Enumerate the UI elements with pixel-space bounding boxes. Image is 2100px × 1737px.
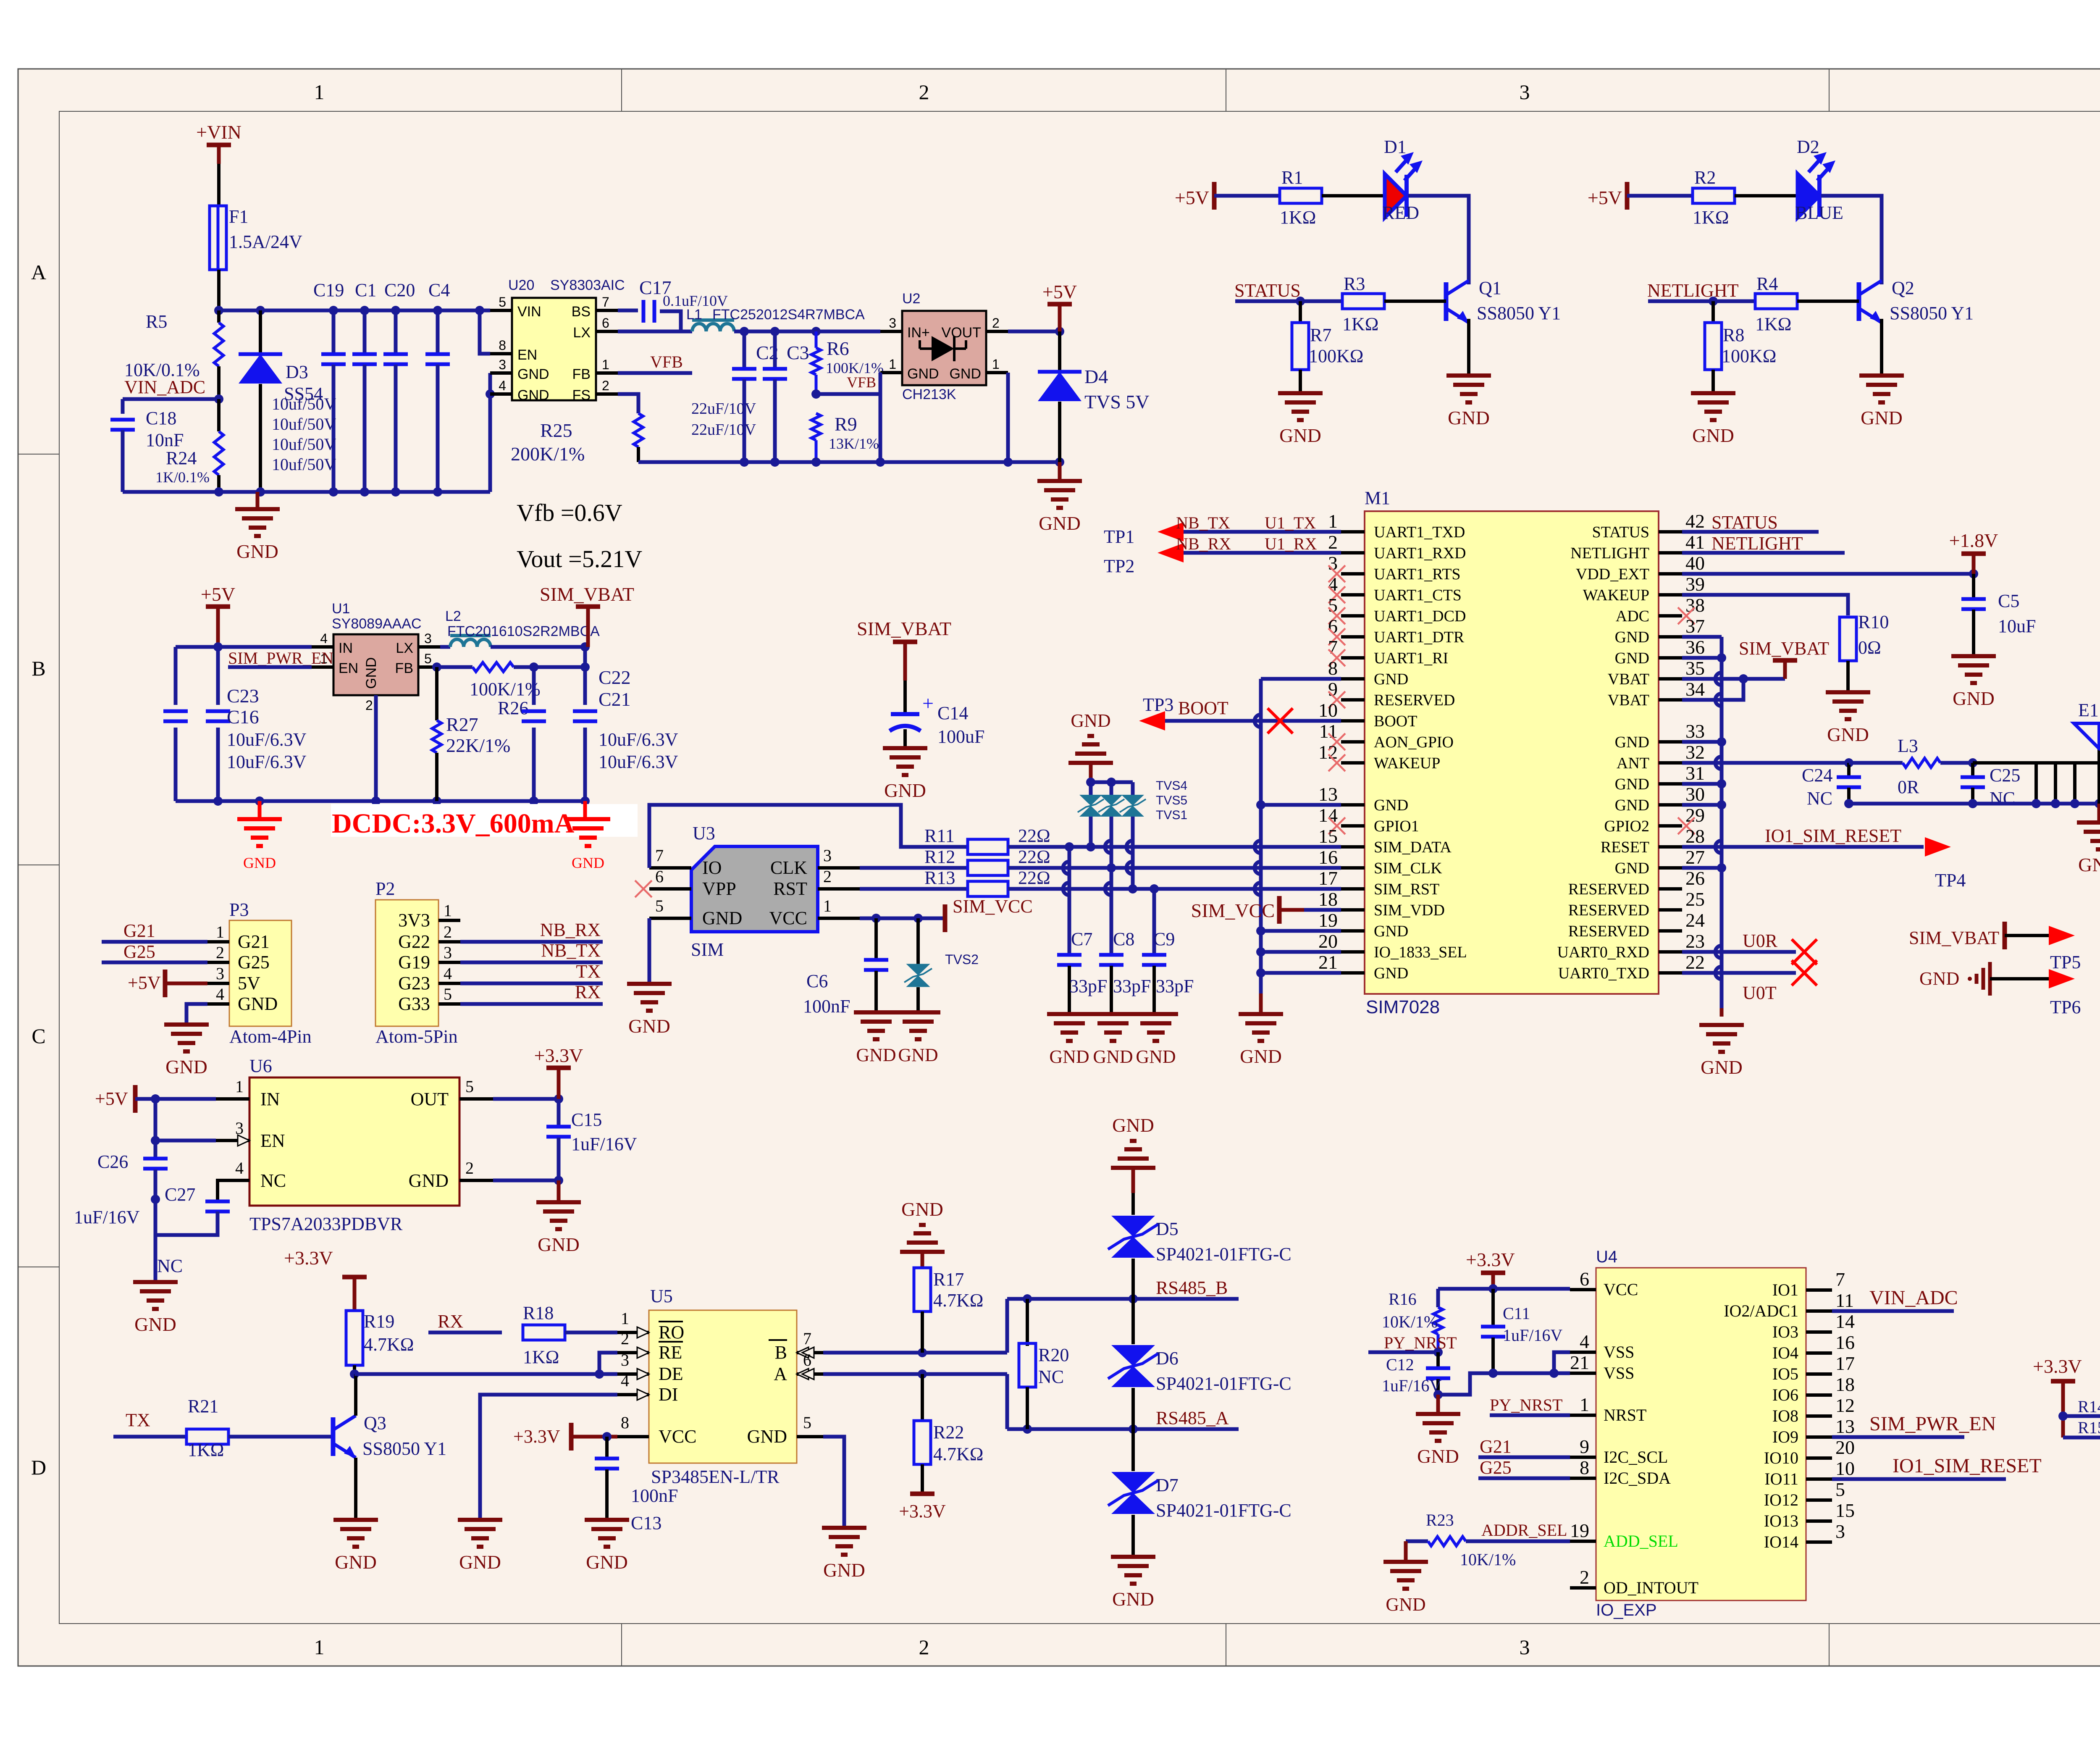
svg-text:C16: C16 bbox=[227, 706, 259, 728]
svg-text:6: 6 bbox=[1580, 1268, 1589, 1290]
svg-text:G21: G21 bbox=[238, 931, 270, 952]
svg-text:EN: EN bbox=[260, 1130, 285, 1151]
svg-text:1KΩ: 1KΩ bbox=[1280, 207, 1316, 228]
svg-text:U1: U1 bbox=[332, 601, 350, 617]
wire hops SIM cap columns bbox=[1063, 862, 1069, 874]
svg-text:10uF/6.3V: 10uF/6.3V bbox=[598, 729, 678, 750]
resistor R10 bbox=[1840, 617, 1856, 661]
svg-text:R19: R19 bbox=[364, 1311, 394, 1332]
wire M1 right GND bus bbox=[1682, 635, 1722, 639]
svg-text:GND: GND bbox=[1112, 1114, 1154, 1136]
M1 pin 9 RESERVED bbox=[1341, 698, 1365, 702]
svg-text:NETLIGHT: NETLIGHT bbox=[1711, 533, 1803, 554]
wire hops M1 right gnd bus bbox=[1715, 673, 1722, 685]
wire FB node bbox=[440, 665, 472, 669]
TVS5 diode bbox=[1110, 782, 1113, 795]
svg-text:UART1_RXD: UART1_RXD bbox=[1374, 544, 1466, 562]
svg-text:VBAT: VBAT bbox=[1608, 691, 1649, 709]
svg-text:14: 14 bbox=[1835, 1311, 1855, 1332]
svg-text:SP4021-01FTG-C: SP4021-01FTG-C bbox=[1156, 1244, 1291, 1264]
wire RS485_A row bbox=[1007, 1427, 1239, 1431]
svg-text:U1_RX: U1_RX bbox=[1265, 534, 1317, 553]
svg-text:10uf/50V: 10uf/50V bbox=[272, 435, 336, 454]
svg-text:IO13: IO13 bbox=[1764, 1511, 1798, 1530]
M1 pin 32 ANT bbox=[1659, 761, 1682, 765]
svg-text:LX: LX bbox=[396, 640, 413, 656]
svg-text:GND: GND bbox=[884, 780, 926, 801]
svg-text:R9: R9 bbox=[835, 413, 857, 435]
M1 pin 12 WAKEUP bbox=[1341, 761, 1365, 765]
svg-text:SIM_VDD: SIM_VDD bbox=[1374, 901, 1445, 919]
inductor L2 bbox=[440, 645, 450, 649]
M1 pin 26 RESERVED bbox=[1659, 887, 1682, 891]
svg-text:2: 2 bbox=[919, 1635, 929, 1659]
svg-text:GPIO2: GPIO2 bbox=[1604, 817, 1649, 835]
svg-text:2: 2 bbox=[1580, 1566, 1589, 1588]
svg-text:17: 17 bbox=[1318, 867, 1338, 889]
wire VCC node U4 bbox=[1438, 1287, 1570, 1291]
IC U5 SP3485EN-L/TR bbox=[649, 1310, 797, 1463]
svg-text:100K/1%: 100K/1% bbox=[470, 679, 541, 699]
wire VBAT pins 35/34 bbox=[1682, 677, 1785, 681]
svg-text:VDD_EXT: VDD_EXT bbox=[1576, 565, 1649, 583]
svg-text:C21: C21 bbox=[598, 688, 631, 710]
svg-text:SIM_DATA: SIM_DATA bbox=[1374, 838, 1452, 856]
svg-text:1: 1 bbox=[314, 1635, 325, 1659]
svg-text:B: B bbox=[31, 657, 45, 680]
U4 pin 2 OD_INTOUT bbox=[1570, 1586, 1596, 1590]
transistor Q3 bbox=[331, 1417, 336, 1456]
M1 pin 13 GND bbox=[1341, 803, 1365, 807]
svg-text:7: 7 bbox=[655, 846, 664, 865]
ground symbol C14 bbox=[883, 746, 927, 750]
U4 pin 18 IO6 bbox=[1806, 1393, 1832, 1397]
svg-text:G33: G33 bbox=[398, 993, 430, 1014]
svg-text:G25: G25 bbox=[238, 952, 270, 972]
wire U2 GND right to bus bbox=[1006, 373, 1010, 462]
U4 pin 9 I2C_SCL bbox=[1570, 1456, 1596, 1459]
connector P3 Atom-4Pin bbox=[229, 920, 291, 1026]
M1 pin 29 GPIO2 bbox=[1659, 824, 1682, 828]
svg-text:RESERVED: RESERVED bbox=[1374, 691, 1455, 709]
resistor R3 bbox=[1342, 294, 1384, 309]
ground symbol C5 bbox=[1951, 654, 1996, 658]
svg-text:30: 30 bbox=[1685, 783, 1705, 805]
svg-text:ADDR_SEL: ADDR_SEL bbox=[1481, 1521, 1567, 1540]
M1 pin 19 GND bbox=[1341, 929, 1365, 933]
wire U3 IO to SIM_DATA row bbox=[649, 805, 968, 868]
svg-text:5: 5 bbox=[499, 294, 506, 310]
svg-text:C6: C6 bbox=[806, 971, 828, 991]
svg-text:U2: U2 bbox=[902, 291, 920, 307]
svg-text:GND: GND bbox=[238, 993, 278, 1014]
svg-text:GND: GND bbox=[586, 1551, 628, 1573]
svg-text:IO6: IO6 bbox=[1772, 1385, 1798, 1404]
svg-text:R20: R20 bbox=[1038, 1345, 1069, 1365]
svg-text:SIM: SIM bbox=[691, 939, 724, 960]
svg-text:17: 17 bbox=[1835, 1353, 1855, 1374]
ground symbol output section bbox=[1058, 462, 1062, 481]
capacitor C18 bbox=[121, 399, 125, 414]
svg-text:4.7KΩ: 4.7KΩ bbox=[933, 1290, 983, 1311]
inductor L3 0R bbox=[1849, 761, 1903, 765]
M1 pin 3 UART1_RTS bbox=[1341, 572, 1365, 575]
capacitor C8 bbox=[1110, 868, 1113, 954]
IC U2 CH213K bbox=[902, 311, 986, 385]
svg-text:3: 3 bbox=[235, 1119, 244, 1138]
svg-text:GND: GND bbox=[1615, 775, 1649, 793]
ground symbol C9 bbox=[1134, 1012, 1178, 1016]
resistor R7 bbox=[1299, 301, 1302, 323]
svg-text:5: 5 bbox=[465, 1077, 474, 1096]
wire Q3 emitter to ground bbox=[354, 1458, 357, 1520]
wire F1 to VIN bus bbox=[217, 270, 220, 310]
svg-text:10K/1%: 10K/1% bbox=[1460, 1550, 1516, 1569]
svg-text:IO3: IO3 bbox=[1772, 1322, 1798, 1341]
M1 pin 16 SIM_CLK bbox=[1341, 866, 1365, 870]
M1 pin 37 GND bbox=[1659, 635, 1682, 639]
svg-text:U3: U3 bbox=[693, 823, 715, 844]
svg-text:4: 4 bbox=[621, 1371, 629, 1390]
TVS2 diode bbox=[916, 918, 920, 964]
svg-text:13: 13 bbox=[1318, 783, 1338, 805]
svg-text:18: 18 bbox=[1318, 888, 1338, 910]
svg-text:+3.3V: +3.3V bbox=[513, 1426, 560, 1447]
svg-text:GND: GND bbox=[1071, 710, 1110, 731]
svg-text:IO1_SIM_RESET: IO1_SIM_RESET bbox=[1893, 1455, 2042, 1477]
svg-text:RO: RO bbox=[659, 1322, 684, 1343]
wire RX to R18 bbox=[428, 1331, 502, 1335]
svg-text:3: 3 bbox=[444, 943, 452, 962]
svg-text:U4: U4 bbox=[1596, 1248, 1617, 1266]
M1 pin 11 AON_GPIO bbox=[1341, 740, 1365, 744]
no-connect X U3 VPP bbox=[635, 880, 652, 897]
M1 pin 21 GND bbox=[1341, 971, 1365, 975]
svg-text:NB_TX: NB_TX bbox=[1176, 513, 1230, 532]
wire Q3 collector bbox=[354, 1374, 357, 1416]
svg-text:GND: GND bbox=[1240, 1046, 1282, 1067]
capacitor C3 bbox=[773, 331, 777, 368]
svg-text:2: 2 bbox=[992, 315, 1000, 331]
svg-text:40: 40 bbox=[1685, 552, 1705, 574]
IC U1 SY8089AAAC bbox=[333, 634, 418, 695]
svg-text:G22: G22 bbox=[398, 931, 430, 952]
svg-text:+3.3V: +3.3V bbox=[284, 1247, 333, 1269]
svg-text:2: 2 bbox=[919, 80, 929, 104]
svg-text:23: 23 bbox=[1685, 930, 1705, 952]
wire U3 CLK to R12 bbox=[860, 866, 968, 870]
svg-text:NB_TX: NB_TX bbox=[541, 940, 601, 961]
resistor R13 bbox=[968, 881, 1008, 896]
resistor R27 bbox=[435, 667, 438, 720]
svg-text:BOOT: BOOT bbox=[1178, 698, 1228, 718]
wire R10 to ground bbox=[1846, 661, 1850, 692]
svg-text:26: 26 bbox=[1685, 867, 1705, 889]
svg-text:10uf/50V: 10uf/50V bbox=[272, 455, 336, 474]
M1 pin 23 UART0_RXD bbox=[1659, 950, 1682, 954]
svg-text:U5: U5 bbox=[650, 1286, 673, 1306]
svg-text:C8: C8 bbox=[1113, 929, 1134, 949]
svg-text:G21: G21 bbox=[1480, 1436, 1512, 1457]
resistor R8 bbox=[1711, 301, 1715, 323]
capacitor C20 bbox=[394, 310, 398, 354]
resistor R6 bbox=[815, 331, 818, 348]
svg-text:RESERVED: RESERVED bbox=[1568, 922, 1649, 940]
svg-text:1: 1 bbox=[602, 357, 609, 372]
wire DE/RE control bbox=[354, 1372, 599, 1376]
M1 pin 33 GND bbox=[1659, 740, 1682, 744]
svg-text:RESET: RESET bbox=[1601, 838, 1649, 856]
wire U3 RST to R13 bbox=[860, 887, 968, 891]
svg-text:1KΩ: 1KΩ bbox=[1693, 207, 1729, 228]
svg-text:GND: GND bbox=[1093, 1046, 1133, 1067]
wire P2 pin5 RX bbox=[460, 1002, 603, 1006]
ground symbol C13 bbox=[585, 1518, 629, 1522]
capacitor C17 bbox=[618, 309, 638, 313]
svg-text:IO8: IO8 bbox=[1772, 1406, 1798, 1425]
svg-text:100KΩ: 100KΩ bbox=[1722, 346, 1776, 366]
svg-text:FS: FS bbox=[572, 387, 591, 403]
resistor R22 bbox=[921, 1374, 924, 1421]
diode D4 TVS bbox=[1058, 331, 1061, 371]
inductor L1 bbox=[618, 330, 692, 334]
capacitor C12 bbox=[1436, 1352, 1440, 1367]
capacitor C4 bbox=[436, 310, 440, 354]
svg-text:10uF/6.3V: 10uF/6.3V bbox=[227, 729, 307, 750]
svg-text:13: 13 bbox=[1835, 1416, 1855, 1437]
wire hops M1 left gnd bus bbox=[1255, 715, 1261, 727]
M1 pin 15 SIM_DATA bbox=[1341, 845, 1365, 849]
wire P2 pin3 NB_TX bbox=[460, 961, 603, 964]
svg-text:G25: G25 bbox=[1480, 1457, 1512, 1478]
resistor R5 bbox=[217, 310, 220, 323]
svg-text:1: 1 bbox=[235, 1077, 244, 1096]
svg-text:Q1: Q1 bbox=[1479, 278, 1501, 298]
ground symbol C8 bbox=[1091, 1012, 1135, 1016]
svg-text:NC: NC bbox=[1038, 1366, 1064, 1387]
svg-text:VSS: VSS bbox=[1604, 1343, 1634, 1361]
svg-text:DI: DI bbox=[659, 1384, 678, 1405]
svg-text:SY8303AIC: SY8303AIC bbox=[550, 277, 625, 293]
capacitor C6 bbox=[874, 918, 878, 959]
svg-text:IO2/ADC1: IO2/ADC1 bbox=[1724, 1301, 1798, 1320]
svg-text:SIM_PWR_EN: SIM_PWR_EN bbox=[1869, 1413, 1996, 1435]
U4 pin 4 VSS bbox=[1570, 1351, 1596, 1354]
svg-text:C1: C1 bbox=[355, 280, 376, 300]
ground symbol DI bbox=[458, 1518, 502, 1522]
svg-text:22Ω: 22Ω bbox=[1018, 867, 1050, 888]
svg-text:IO_1833_SEL: IO_1833_SEL bbox=[1374, 943, 1467, 961]
M1 pin 36 GND bbox=[1659, 656, 1682, 660]
svg-text:P3: P3 bbox=[229, 899, 249, 920]
svg-text:C13: C13 bbox=[631, 1513, 661, 1533]
svg-text:3: 3 bbox=[216, 964, 224, 983]
svg-text:SIM_RST: SIM_RST bbox=[1374, 880, 1439, 898]
M1 pin 38 ADC bbox=[1659, 614, 1682, 618]
wire TX to R21 bbox=[113, 1435, 186, 1439]
svg-text:+5V: +5V bbox=[1175, 187, 1209, 208]
svg-text:VFB: VFB bbox=[847, 374, 876, 391]
svg-text:3: 3 bbox=[823, 846, 832, 865]
frame zone dividers bottom bbox=[621, 1624, 622, 1666]
wire U5 GND to ground bbox=[823, 1437, 844, 1528]
svg-text:R27: R27 bbox=[446, 714, 478, 735]
U4 pin 5 IO12 bbox=[1806, 1498, 1832, 1502]
svg-text:7: 7 bbox=[602, 294, 609, 310]
resistor R20 NC bbox=[1026, 1299, 1029, 1346]
svg-text:15: 15 bbox=[1318, 825, 1338, 847]
resistor R21 bbox=[186, 1429, 228, 1444]
svg-text:GND: GND bbox=[1919, 968, 1959, 989]
resistor R18 bbox=[523, 1325, 565, 1340]
svg-text:GND: GND bbox=[1039, 512, 1081, 534]
svg-text:VIN_ADC: VIN_ADC bbox=[124, 377, 205, 397]
IC M1 SIM7028 bbox=[1365, 511, 1659, 994]
svg-text:UART0_RXD: UART0_RXD bbox=[1557, 943, 1649, 961]
svg-text:+5V: +5V bbox=[1042, 281, 1077, 302]
resistor R24 bbox=[217, 399, 220, 431]
svg-text:C20: C20 bbox=[384, 280, 415, 300]
wire P2 pin2 NB_RX bbox=[460, 940, 603, 944]
svg-text:25: 25 bbox=[1685, 888, 1705, 910]
wire R4 to base bbox=[1797, 300, 1859, 303]
svg-text:IN: IN bbox=[260, 1089, 280, 1109]
svg-text:GND: GND bbox=[1417, 1445, 1459, 1467]
svg-text:5: 5 bbox=[803, 1413, 811, 1432]
node NETLIGHT at M1 pin41 bbox=[1682, 551, 1845, 555]
svg-text:C19: C19 bbox=[313, 280, 344, 300]
wire U1 IN node bbox=[176, 645, 312, 649]
svg-text:C15: C15 bbox=[571, 1109, 602, 1130]
svg-text:27: 27 bbox=[1685, 846, 1705, 868]
wire U1 GND pin to rail bbox=[374, 695, 378, 801]
fuse F1 bbox=[210, 206, 226, 270]
svg-text:SIM_VBAT: SIM_VBAT bbox=[1739, 638, 1829, 659]
wire VIN bus bbox=[219, 309, 490, 313]
svg-text:RX: RX bbox=[438, 1311, 463, 1332]
diode D3 SS54 bbox=[259, 310, 262, 354]
resistor R16 bbox=[1436, 1289, 1440, 1307]
svg-text:4: 4 bbox=[1580, 1331, 1589, 1352]
svg-text:R4: R4 bbox=[1756, 273, 1778, 294]
svg-text:FTC252012S4R7MBCA: FTC252012S4R7MBCA bbox=[712, 307, 865, 323]
capacitor C22 bbox=[532, 667, 536, 705]
svg-text:10nF: 10nF bbox=[146, 430, 184, 450]
svg-text:R22: R22 bbox=[933, 1422, 964, 1443]
wire NETLIGHT to R4 bbox=[1648, 300, 1755, 303]
svg-text:RESERVED: RESERVED bbox=[1568, 901, 1649, 919]
svg-text:UART1_TXD: UART1_TXD bbox=[1374, 523, 1465, 541]
U4 pin 3 IO14 bbox=[1806, 1540, 1832, 1544]
svg-text:3V3: 3V3 bbox=[398, 910, 430, 930]
wire U5 A to RS485_A bbox=[823, 1372, 1007, 1376]
svg-text:P2: P2 bbox=[375, 878, 395, 899]
ground symbol TVS group bbox=[1068, 761, 1113, 765]
svg-text:GND: GND bbox=[165, 1056, 207, 1077]
svg-text:22Ω: 22Ω bbox=[1018, 825, 1050, 846]
svg-text:SS8050 Y1: SS8050 Y1 bbox=[362, 1438, 446, 1459]
wire U4 IO9 SIM_PWR_EN bbox=[1832, 1435, 1964, 1439]
U4 pin 11 IO2/ADC1 bbox=[1806, 1309, 1832, 1313]
svg-text:OUT: OUT bbox=[411, 1089, 449, 1109]
wire RS485_B row bbox=[1007, 1297, 1239, 1301]
M1 pin 28 RESET bbox=[1659, 845, 1682, 849]
svg-text:20: 20 bbox=[1835, 1437, 1855, 1458]
resistor R2 bbox=[1693, 188, 1735, 203]
svg-text:+3.3V: +3.3V bbox=[899, 1501, 946, 1522]
svg-text:1: 1 bbox=[1328, 510, 1338, 532]
TVS1 diode bbox=[1131, 782, 1135, 795]
wire U6 GND bbox=[493, 1179, 559, 1183]
svg-text:GND: GND bbox=[1615, 859, 1649, 877]
svg-text:U1_TX: U1_TX bbox=[1265, 513, 1316, 532]
wire U6 OUT to +3.3V bbox=[493, 1097, 559, 1101]
svg-text:EN: EN bbox=[517, 347, 537, 363]
svg-text:2: 2 bbox=[823, 867, 832, 886]
M1 pin 35 VBAT bbox=[1659, 677, 1682, 681]
svg-text:16: 16 bbox=[1835, 1332, 1855, 1353]
wire P2 pin4 TX bbox=[460, 982, 603, 985]
svg-text:D4: D4 bbox=[1084, 366, 1108, 387]
svg-text:Atom-5Pin: Atom-5Pin bbox=[375, 1026, 458, 1047]
IC U4 IO_EXP bbox=[1596, 1268, 1806, 1600]
svg-text:8: 8 bbox=[1580, 1457, 1589, 1478]
wire R23 to ground bbox=[1404, 1541, 1408, 1562]
svg-text:41: 41 bbox=[1685, 531, 1705, 553]
IC U20 SY8303AIC bbox=[512, 298, 596, 400]
M1 pin 10 BOOT bbox=[1341, 719, 1365, 723]
svg-text:IO4: IO4 bbox=[1772, 1343, 1798, 1362]
power symbol +3.3V R22 bbox=[910, 1492, 934, 1496]
svg-text:GND: GND bbox=[1112, 1588, 1154, 1610]
wire EN bbox=[155, 1139, 216, 1143]
svg-text:DCDC:3.3V_600mA: DCDC:3.3V_600mA bbox=[332, 808, 575, 839]
svg-text:11: 11 bbox=[1835, 1290, 1854, 1311]
svg-text:ADC: ADC bbox=[1616, 607, 1649, 625]
svg-text:TX: TX bbox=[126, 1410, 150, 1430]
svg-text:2: 2 bbox=[1328, 531, 1338, 553]
capacitor C21 bbox=[583, 647, 587, 705]
ground symbol M1 right bbox=[1720, 1008, 1724, 1017]
resistor R17 bbox=[900, 1250, 945, 1254]
svg-text:10: 10 bbox=[1318, 699, 1338, 721]
svg-text:GND: GND bbox=[1953, 688, 1995, 709]
resistor R4 bbox=[1755, 294, 1797, 309]
resistor R25 bbox=[618, 394, 638, 413]
svg-text:ANT: ANT bbox=[1617, 754, 1649, 772]
M1 pin 39 WAKEUP bbox=[1659, 593, 1682, 597]
svg-text:33: 33 bbox=[1685, 720, 1705, 742]
M1 pin 17 SIM_RST bbox=[1341, 887, 1365, 891]
svg-text:R17: R17 bbox=[933, 1269, 964, 1290]
wire WAKEUP pin39 to R10 bbox=[1682, 595, 1848, 615]
svg-text:RE: RE bbox=[659, 1342, 682, 1363]
svg-text:Vfb =0.6V: Vfb =0.6V bbox=[517, 499, 622, 526]
svg-text:IO5: IO5 bbox=[1772, 1364, 1798, 1383]
ground symbol R7 bbox=[1278, 391, 1323, 395]
svg-text:PY_NRST: PY_NRST bbox=[1384, 1333, 1457, 1352]
svg-text:8: 8 bbox=[499, 338, 506, 353]
ground symbol Q3 bbox=[333, 1518, 378, 1522]
svg-text:VIN: VIN bbox=[517, 304, 541, 320]
svg-text:C22: C22 bbox=[598, 667, 631, 688]
svg-text:IO11: IO11 bbox=[1764, 1469, 1798, 1488]
wire Q1 emitter to ground bbox=[1467, 319, 1470, 376]
capacitor C14 polarized bbox=[903, 681, 907, 714]
svg-text:C: C bbox=[31, 1024, 45, 1048]
svg-text:7: 7 bbox=[1835, 1269, 1845, 1290]
svg-text:NC: NC bbox=[1807, 788, 1832, 809]
